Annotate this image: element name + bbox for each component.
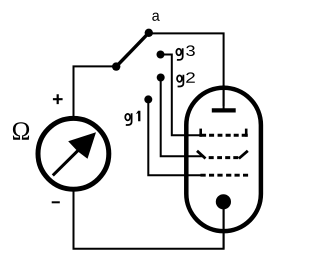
ohmmeter needle head: [68, 132, 96, 158]
node a label: [152, 13, 159, 21]
grid g3 (dashed with end brackets): [199, 129, 247, 137]
cathode lead wire: [223, 202, 225, 249]
grid g1 (dashed): [200, 174, 248, 177]
ohmmeter needle shaft: [53, 149, 80, 176]
wire: meter top riser to switch pole: [74, 66, 115, 116]
tube V1 envelope: [186, 88, 261, 231]
terminal dot g2: [157, 74, 165, 82]
wire: meter bottom to cathode (bottom rail): [74, 191, 224, 249]
g2 label: [177, 72, 195, 86]
cathode dot: [216, 194, 231, 209]
anode lead wire: [223, 85, 225, 109]
ohmmeter M1 body: [38, 118, 109, 189]
switch contact dot (node a): [145, 29, 153, 37]
plus polarity mark: [53, 94, 63, 104]
terminal dot g1: [144, 95, 152, 103]
terminal dot g3: [157, 51, 165, 59]
wire: g2 terminal to grid 2 lead: [161, 78, 204, 157]
grid g2 (dashed with diagonal ends): [197, 151, 248, 159]
wire: g1 terminal to grid 1 lead: [148, 99, 201, 175]
switch pole dot: [112, 62, 120, 70]
g3 label: [176, 45, 194, 59]
wire: node a to anode riser: [149, 33, 224, 106]
anode plate bar: [212, 108, 236, 112]
ohmmeter omega label: [13, 122, 29, 140]
g1 label: [125, 111, 140, 125]
wire: g3 terminal to grid 3 lead: [161, 55, 200, 136]
minus polarity mark: [52, 201, 60, 203]
switch S1 blade: [116, 33, 149, 67]
